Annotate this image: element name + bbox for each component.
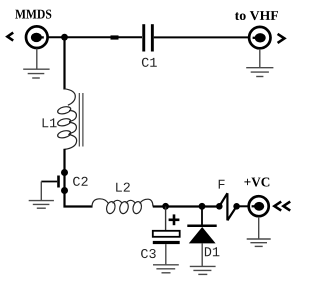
inductor L2 xyxy=(92,199,153,215)
label +VC xyxy=(244,178,269,187)
label C1 xyxy=(142,58,157,67)
arrow +VC input xyxy=(274,202,290,211)
wire L1 to C2 xyxy=(63,149,65,173)
wire node B to node C xyxy=(166,205,202,207)
arrow VHF output xyxy=(278,34,285,43)
fuse F xyxy=(216,193,240,220)
label F xyxy=(219,180,225,189)
node B junction xyxy=(162,203,169,210)
wire node A to C1 xyxy=(65,36,143,38)
ground (C3) xyxy=(153,265,179,273)
connector J1 MMDS xyxy=(26,26,48,48)
polarity plus of C3 xyxy=(169,214,180,225)
inductor L1 xyxy=(57,89,83,150)
node A junction xyxy=(61,34,68,41)
wire fuse to +VC connector xyxy=(237,205,249,207)
arrow MMDS input xyxy=(7,33,13,41)
label to VHF xyxy=(235,11,278,20)
wire C1 to VHF connector xyxy=(154,36,249,38)
capacitor C2 feedthrough xyxy=(41,169,68,194)
label D1 xyxy=(205,247,220,256)
ground (VHF connector) xyxy=(246,49,273,77)
wire MMDS to node A xyxy=(48,36,65,38)
wire node A down to L1 xyxy=(63,37,65,89)
wire C3 to ground xyxy=(165,244,167,264)
diode D1 xyxy=(187,226,216,244)
capacitor C1 xyxy=(142,24,153,51)
node C junction xyxy=(199,203,206,210)
wire node C to D1 xyxy=(201,207,203,226)
wire C2 plate to ground xyxy=(40,182,42,201)
wire node B to C3 xyxy=(165,207,167,231)
label C3 xyxy=(141,249,156,258)
label C2 xyxy=(73,177,88,186)
connector J3 +VC xyxy=(249,196,269,216)
ground (C2) xyxy=(29,201,54,209)
label L1 xyxy=(43,118,57,127)
wire D1 to ground xyxy=(201,243,203,266)
capacitor C3 electrolytic xyxy=(153,231,180,244)
label L2 xyxy=(116,183,130,192)
wire L2 to node B xyxy=(153,205,166,207)
ground (+VC connector) xyxy=(247,217,271,247)
ground (D1) xyxy=(190,266,216,274)
label MMDS xyxy=(15,10,51,19)
wire node C to fuse F xyxy=(202,205,219,207)
ground (MMDS connector) xyxy=(23,49,49,78)
wire C2 to L2 corner xyxy=(65,191,93,207)
wire thick segment xyxy=(111,35,119,39)
connector J2 to VHF xyxy=(249,27,270,48)
